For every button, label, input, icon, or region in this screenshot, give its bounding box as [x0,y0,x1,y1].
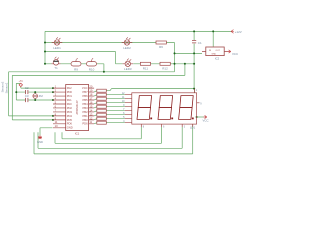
IC1 pin numbers and names [55,85,93,130]
svg-text:10: 10 [55,124,58,128]
wire C1 vertical [193,31,195,53]
trimmer R9 [71,58,81,66]
resistor R11 [140,62,150,65]
svg-text:PB1: PB1 [83,114,89,118]
svg-text:11: 11 [55,120,58,124]
svg-text:VCC: VCC [232,52,238,56]
svg-text:C1: C1 [198,41,202,45]
svg-text:R6: R6 [159,45,163,49]
regulator IC2 [206,47,224,56]
wire segment wire y95 [106,94,125,96]
svg-text:PB6: PB6 [83,94,89,98]
wire segment wire y99 [106,98,125,100]
display left pin numbers [122,92,125,123]
svg-text:1: 1 [196,89,198,92]
svg-text:4M: 4M [39,94,44,98]
LED LED3 [123,59,134,67]
svg-text:PD5: PD5 [67,118,73,122]
svg-text:R11: R11 [143,66,149,70]
svg-text:T1: T1 [54,66,58,70]
wire crystal row XTAL2 [16,91,53,93]
LED LED1 [52,37,63,45]
svg-text:18: 18 [89,92,92,96]
wire res jog 2 [94,95,97,96]
svg-text:20: 20 [89,85,92,89]
svg-text:LED3: LED3 [124,67,132,71]
wire sensor wire 1 [9,72,53,116]
svg-text:LED2: LED2 [123,46,131,50]
svg-text:16: 16 [89,100,92,104]
svg-text:GND: GND [37,140,43,144]
wire res jog 1 [94,91,97,92]
svg-text:PB2: PB2 [83,110,89,114]
display digit 3 [180,96,193,108]
svg-text:PA1: PA1 [67,98,72,102]
svg-text:9: 9 [200,102,202,105]
supply VCC at regulator [228,50,231,53]
wire GND feed [40,128,53,135]
wire digit1 wrap [62,127,141,139]
display left pin stubs [125,95,132,123]
wire T1 row [45,63,104,65]
svg-text:IN: IN [209,50,212,52]
capacitor C2 [26,90,28,94]
wire oval drop [103,64,105,72]
op-amp IC1 microcontroller [66,85,89,131]
wire segment wire y119 [106,118,125,120]
svg-text:AT90S2313P: AT90S2313P [76,100,79,114]
wire segment wire y107 [106,106,125,108]
capacitor C3 [26,98,28,102]
wire res jog 4 [94,103,97,104]
svg-text:C2: C2 [25,86,29,90]
wire crystal row XTAL1 [16,99,53,101]
trimmer R10 [87,58,97,66]
svg-text:LED1: LED1 [53,46,61,50]
svg-text:17: 17 [89,96,92,100]
svg-text:PD1: PD1 [67,94,73,98]
svg-text:LD1: LD1 [190,125,196,129]
resistor array R1-R9 [97,89,107,124]
svg-text:13: 13 [89,112,92,116]
wire wrap net upper [12,64,185,76]
svg-text:PD6: PD6 [67,122,73,126]
svg-text:PD4: PD4 [67,114,73,118]
wire segment wire y103 [106,102,125,104]
wire display right pin wire [197,116,204,118]
svg-text:6: 6 [163,125,165,128]
svg-text:R12: R12 [162,66,168,70]
wire top +12V rail [45,30,231,32]
svg-text:VCC: VCC [203,118,209,122]
wire res jog 7 [94,115,97,116]
wire res jog 9 [94,123,97,124]
svg-text:19: 19 [89,88,92,92]
capacitor C1 [192,41,196,43]
IC1 right pins [89,88,95,124]
svg-text:PB3: PB3 [83,106,89,110]
resistor R6 [156,41,166,44]
svg-text:15: 15 [89,104,92,108]
resistor R12 [160,62,170,65]
svg-text:PB7: PB7 [83,90,89,94]
svg-text:PA2: PA2 [67,86,72,90]
wire regulator top feed [212,31,214,46]
wire regulator input row [175,52,203,54]
wire crystal stubs [34,92,36,100]
svg-text:PD3: PD3 [67,110,73,114]
svg-text:PD0: PD0 [67,90,73,94]
svg-text:GND: GND [67,126,73,130]
svg-text:PB5: PB5 [83,98,89,102]
svg-text:PA0: PA0 [67,102,72,106]
svg-text:8: 8 [143,125,145,128]
supply +12V arrow [231,30,234,34]
display LD1 box [132,93,197,124]
svg-text:14: 14 [89,108,92,112]
svg-text:IC2: IC2 [215,56,220,60]
ground symbol [38,135,42,139]
display digit 2 [159,96,172,108]
wire segment wire y123 [106,122,125,124]
svg-text:Sensor1: Sensor1 [4,82,8,93]
svg-text:VCC: VCC [82,86,88,90]
svg-text:+5V: +5V [19,80,24,83]
transistor T1 [52,57,61,65]
wire crystal left riser [16,83,20,100]
svg-text:GND: GND [212,53,217,55]
svg-text:3: 3 [184,125,186,128]
display right pin stub [197,102,200,104]
wire R6 drop [174,43,176,72]
svg-text:PD2: PD2 [67,106,73,110]
LED LED2 [122,37,133,45]
display top pin stub [194,89,196,93]
supply +5V [19,83,22,86]
wire res jog 3 [94,99,97,100]
supply VCC at display [204,115,207,118]
svg-text:IC1: IC1 [75,131,80,135]
wire left drop V1 [44,31,46,63]
svg-text:PB0: PB0 [83,118,89,122]
crystal Q1 [33,94,38,99]
wire sensor wire 2 [12,75,53,119]
svg-text:+12V: +12V [235,30,242,34]
svg-text:OUT: OUT [216,50,221,52]
wire digit3 wrap [38,127,182,148]
junction dots [15,30,214,120]
svg-text:R9: R9 [74,67,78,71]
wire res jog 6 [94,111,97,112]
IC1 left pins [53,88,66,128]
wire mid rail [45,51,116,53]
wire +5V row [21,87,53,88]
wire digit2 wrap [55,127,162,143]
svg-text:11: 11 [89,120,92,124]
svg-text:C3: C3 [25,94,29,98]
wire LED3 drop [115,52,117,64]
wire res jog 5 [94,107,97,108]
wire segment wire y115 [106,114,125,116]
display bottom pin numbers [143,125,186,128]
display digit 1 [138,96,151,108]
svg-text:PD6: PD6 [82,122,88,126]
svg-text:12: 12 [89,116,92,120]
svg-text:R10: R10 [89,67,95,71]
wire LED3/R11/R12 row [116,63,195,65]
wire sensor row long [9,71,175,73]
wire gnd bottom wrap [34,124,193,154]
wire segment wire y111 [106,110,125,112]
wire C1 to VCC row drop [193,53,195,88]
display bottom pin stubs [141,124,192,127]
svg-text:PB4: PB4 [83,102,89,106]
wire VCC display top row [106,89,194,93]
wire LED row [45,42,175,44]
wire res jog 8 [94,119,97,120]
